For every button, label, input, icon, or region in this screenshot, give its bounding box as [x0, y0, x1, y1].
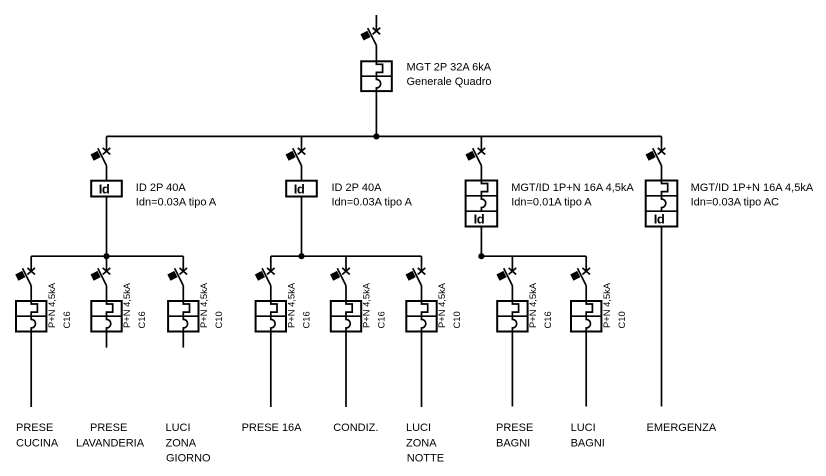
MCB 8 contact — [570, 268, 590, 286]
svg-text:CUCINA: CUCINA — [16, 437, 59, 449]
junction node sub-bus 1 — [103, 253, 109, 259]
MCB MCB 7 box — [497, 301, 527, 332]
svg-text:C16: C16 — [542, 311, 553, 328]
svg-text:GIORNO: GIORNO — [166, 452, 211, 464]
MGT/ID Q4 box — [646, 181, 678, 227]
wire — [345, 332, 347, 408]
wire — [375, 91, 377, 136]
wire — [511, 332, 513, 407]
Q4 contact — [646, 148, 666, 166]
RCD RCD Q2 box — [286, 181, 317, 197]
RCD RCD Q1 box — [91, 181, 122, 197]
wire — [511, 286, 513, 301]
main breaker Q0 contact — [360, 28, 380, 46]
svg-text:Idn=0.03A tipo AC: Idn=0.03A tipo AC — [691, 196, 779, 208]
wire — [106, 136, 108, 151]
incoming supply wire — [375, 15, 377, 31]
wire — [182, 332, 184, 348]
load label LUCI ZONA GIORNO — [166, 422, 212, 464]
wire — [301, 197, 303, 257]
svg-text:P+N 4,5kA: P+N 4,5kA — [198, 282, 209, 328]
wire — [421, 286, 423, 301]
load label EMERGENZA — [647, 422, 717, 434]
svg-text:LUCI: LUCI — [166, 422, 191, 434]
RCD Q1 contact — [91, 148, 111, 166]
MCB MCB 4 box — [256, 301, 286, 332]
wire — [30, 332, 32, 408]
wire — [585, 286, 587, 301]
svg-text:Idn=0.03A tipo A: Idn=0.03A tipo A — [136, 196, 217, 208]
svg-text:LUCI: LUCI — [571, 422, 596, 434]
wire — [345, 256, 347, 271]
svg-text:BAGNI: BAGNI — [571, 437, 605, 449]
sub-bus 3 — [481, 255, 586, 257]
wire — [301, 166, 303, 181]
load label PRESE CUCINA — [16, 422, 59, 449]
MGT main breaker Q0 box — [361, 61, 392, 91]
wire to EMERGENZA — [661, 227, 663, 407]
svg-text:P+N 4,5kA: P+N 4,5kA — [601, 282, 612, 328]
svg-text:Idn=0.01A tipo A: Idn=0.01A tipo A — [511, 196, 592, 208]
MCB MCB 3 box — [168, 301, 198, 332]
wire — [585, 256, 587, 271]
svg-text:C16: C16 — [301, 311, 312, 328]
svg-text:CONDIZ.: CONDIZ. — [333, 422, 378, 434]
wire — [661, 166, 663, 181]
svg-text:Id: Id — [99, 182, 110, 197]
svg-text:ZONA: ZONA — [406, 437, 437, 449]
svg-text:NOTTE: NOTTE — [407, 452, 444, 464]
MCB 4 contact — [255, 268, 275, 286]
sub-bus 1 — [31, 255, 183, 257]
MCB 3 contact — [167, 268, 187, 286]
MCB 7 contact — [496, 268, 516, 286]
MCB 6 contact — [406, 268, 426, 286]
svg-text:P+N 4,5kA: P+N 4,5kA — [121, 282, 132, 328]
wire — [345, 286, 347, 301]
wire — [301, 136, 303, 151]
load label CONDIZ. — [333, 422, 378, 434]
svg-text:EMERGENZA: EMERGENZA — [647, 422, 717, 434]
junction node sub-bus 3 — [478, 253, 484, 259]
wire — [375, 45, 377, 61]
wire — [480, 166, 482, 181]
svg-text:PRESE: PRESE — [496, 422, 533, 434]
junction node main bus — [373, 133, 379, 139]
svg-text:Id: Id — [294, 182, 305, 197]
svg-text:PRESE: PRESE — [90, 422, 127, 434]
junction node sub-bus 2 — [298, 253, 304, 259]
load label LUCI ZONA NOTTE — [406, 422, 444, 464]
wire — [30, 256, 32, 271]
svg-text:P+N 4,5kA: P+N 4,5kA — [361, 282, 372, 328]
svg-text:MGT/ID 1P+N 16A 4,5kA: MGT/ID 1P+N 16A 4,5kA — [691, 182, 814, 194]
svg-text:C10: C10 — [616, 311, 627, 328]
svg-text:C16: C16 — [376, 311, 387, 328]
MCB 1 contact — [15, 268, 35, 286]
svg-text:C16: C16 — [136, 311, 147, 328]
wire — [182, 256, 184, 271]
MCB MCB 8 box — [571, 301, 601, 332]
svg-text:PRESE 16A: PRESE 16A — [242, 422, 303, 434]
svg-text:Id: Id — [654, 211, 665, 226]
wire — [270, 286, 272, 301]
wire — [585, 332, 587, 407]
svg-text:ID 2P 40A: ID 2P 40A — [332, 182, 383, 194]
MCB MCB 2 box — [91, 301, 121, 332]
svg-text:ZONA: ZONA — [166, 437, 197, 449]
svg-text:P+N 4,5kA: P+N 4,5kA — [286, 282, 297, 328]
svg-text:C16: C16 — [61, 311, 72, 328]
wire — [270, 332, 272, 408]
MCB 5 contact — [330, 268, 350, 286]
wire — [106, 332, 108, 348]
svg-text:C10: C10 — [451, 311, 462, 328]
wire — [421, 332, 423, 408]
MCB MCB 5 box — [331, 301, 361, 332]
wire — [106, 166, 108, 181]
load label LUCI BAGNI — [571, 422, 605, 449]
svg-text:P+N 4,5kA: P+N 4,5kA — [436, 282, 447, 328]
svg-text:MGT 2P 32A 6kA: MGT 2P 32A 6kA — [407, 62, 492, 74]
wire — [106, 256, 108, 271]
MCB 2 contact — [91, 268, 111, 286]
svg-text:LAVANDERIA: LAVANDERIA — [76, 437, 145, 449]
load label PRESE LAVANDERIA — [76, 422, 145, 449]
wire — [30, 286, 32, 301]
load label PRESE BAGNI — [496, 422, 533, 449]
MGT/ID Q3 box — [466, 181, 498, 227]
svg-text:Idn=0.03A tipo A: Idn=0.03A tipo A — [332, 196, 413, 208]
svg-text:P+N 4,5kA: P+N 4,5kA — [527, 282, 538, 328]
svg-text:ID 2P 40A: ID 2P 40A — [136, 182, 187, 194]
wire — [421, 256, 423, 271]
svg-text:PRESE: PRESE — [16, 422, 53, 434]
wire — [480, 227, 482, 257]
Q3 contact — [465, 148, 485, 166]
svg-text:LUCI: LUCI — [406, 422, 431, 434]
wire — [106, 286, 108, 301]
RCD Q2 contact — [286, 148, 306, 166]
sub-bus 2 — [271, 255, 422, 257]
wire — [480, 136, 482, 151]
wire — [661, 136, 663, 151]
svg-text:Id: Id — [474, 211, 485, 226]
svg-text:BAGNI: BAGNI — [496, 437, 530, 449]
svg-text:P+N 4,5kA: P+N 4,5kA — [46, 282, 57, 328]
wire — [182, 286, 184, 301]
load label PRESE 16A — [242, 422, 303, 434]
wire — [511, 256, 513, 271]
wire — [106, 197, 108, 257]
wire — [270, 256, 272, 271]
MCB MCB 1 box — [16, 301, 46, 332]
svg-text:C10: C10 — [213, 311, 224, 328]
svg-text:Generale Quadro: Generale Quadro — [407, 76, 492, 88]
MCB MCB 6 box — [406, 301, 436, 332]
main bus — [107, 135, 662, 137]
svg-text:MGT/ID 1P+N 16A 4,5kA: MGT/ID 1P+N 16A 4,5kA — [511, 182, 634, 194]
